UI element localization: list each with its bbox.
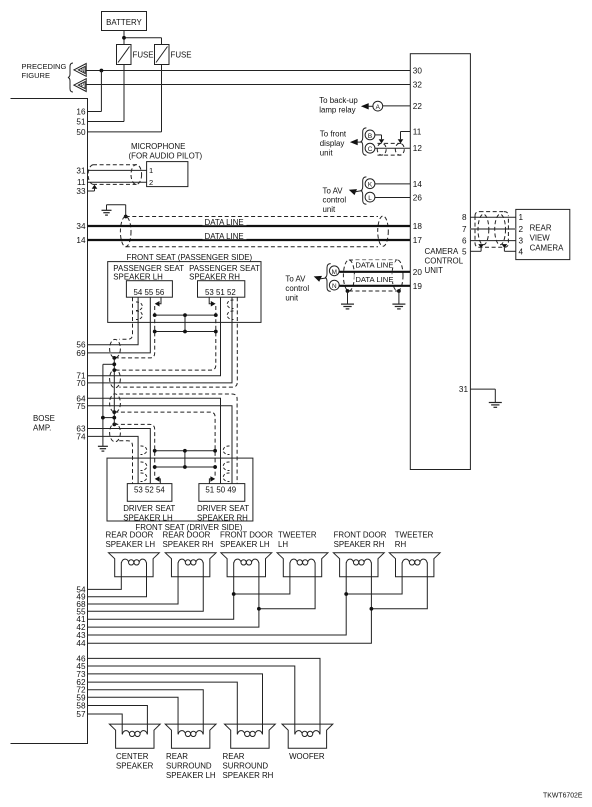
wire driver tie center link	[184, 451, 186, 467]
svg-text:BOSE: BOSE	[33, 414, 55, 423]
shield drain triangle camera pin 4	[502, 244, 508, 248]
ground AV shield right	[392, 291, 405, 309]
svg-text:34: 34	[76, 222, 86, 231]
svg-text:DATA LINE: DATA LINE	[355, 275, 393, 284]
data line 1 (pin 34 to camera control pin 18)	[88, 225, 411, 227]
svg-text:REAR DOOR: REAR DOOR	[163, 530, 211, 539]
svg-text:REAR DOOR: REAR DOOR	[106, 530, 154, 539]
speaker rear door speaker RH	[165, 553, 216, 577]
to back-up lamp relay label	[319, 96, 358, 114]
label FRONT DOOR SPEAKER RH	[334, 530, 387, 548]
data line 2 (pin 14 to camera control pin 17)	[88, 239, 411, 241]
svg-text:19: 19	[413, 282, 423, 291]
wire amp pin 73 to rear surround RH -	[88, 674, 263, 734]
svg-text:14: 14	[76, 236, 86, 245]
wire rear camera pin 4 to shield	[504, 248, 515, 251]
svg-text:8: 8	[462, 213, 467, 222]
data line 1 label	[203, 217, 247, 227]
camera control unit left pin labels	[413, 67, 423, 291]
wire passenger LH pin 55 to amp pin 69	[88, 297, 151, 353]
wire pin 51	[88, 121, 125, 123]
svg-text:AMP.: AMP.	[33, 424, 51, 433]
wire passenger RH pin 52 to amp pin 70	[88, 297, 233, 383]
svg-text:75: 75	[76, 402, 86, 411]
svg-text:16: 16	[76, 108, 86, 117]
label TWEETER RH	[395, 530, 434, 548]
svg-text:display: display	[320, 139, 345, 148]
junction tweeter LH -	[257, 607, 261, 611]
driver seat speaker LH label	[123, 504, 175, 522]
wire B to shield drain	[375, 135, 382, 139]
junction data line shield ground	[124, 215, 128, 219]
connector circle L	[365, 192, 375, 202]
label TWEETER LH	[278, 530, 317, 548]
passenger seat speaker LH label	[113, 264, 184, 282]
svg-text:FRONT SEAT (PASSENGER SIDE): FRONT SEAT (PASSENGER SIDE)	[127, 253, 253, 262]
svg-text:SPEAKER LH: SPEAKER LH	[123, 513, 173, 522]
wire P to camera control pin 32	[86, 84, 410, 86]
shield mark passenger RH	[227, 300, 233, 320]
bose amp label	[33, 414, 55, 433]
svg-text:33: 33	[76, 187, 86, 196]
label REAR DOOR SPEAKER LH	[106, 530, 156, 548]
ground camera control unit	[489, 402, 502, 404]
svg-text:(FOR AUDIO PILOT): (FOR AUDIO PILOT)	[129, 152, 203, 161]
svg-text:PASSENGER SEAT: PASSENGER SEAT	[189, 264, 260, 273]
brace AV connectors M N	[325, 264, 331, 292]
speaker front door speaker LH	[221, 553, 272, 577]
wire driver speaker tie upper	[155, 450, 215, 452]
wire A to camera control pin 22	[383, 105, 411, 107]
AV data line 1 label	[354, 260, 395, 270]
wire fuse F2 to pin 50	[161, 65, 163, 132]
svg-text:74: 74	[76, 432, 86, 441]
wire passenger LH pin 56 to shield	[158, 297, 162, 304]
wire K to camera control pin 14	[375, 183, 410, 185]
wire driver RH pin 51 to shield	[209, 479, 212, 484]
svg-text:A: A	[376, 104, 381, 111]
svg-text:DATA LINE: DATA LINE	[205, 218, 244, 227]
svg-text:MICROPHONE: MICROPHONE	[131, 142, 185, 151]
passenger seat speaker LH connector	[126, 281, 172, 298]
rear view camera unit	[516, 209, 570, 259]
svg-text:CAMERA: CAMERA	[530, 244, 564, 253]
svg-text:26: 26	[413, 194, 423, 203]
connector triangle N	[74, 64, 86, 77]
svg-text:REAR: REAR	[223, 752, 245, 761]
to AV control unit label (K L)	[323, 186, 347, 214]
shield drain triangle driver LH	[155, 476, 160, 482]
svg-text:12: 12	[413, 144, 423, 153]
svg-text:FRONT DOOR: FRONT DOOR	[334, 530, 387, 539]
svg-text:REAR: REAR	[530, 224, 552, 233]
svg-text:CAMERA: CAMERA	[425, 247, 459, 256]
wire tweeter RH - join	[371, 563, 427, 609]
wire amp pin 62 to rear surround RH +	[88, 682, 238, 734]
front seat driver side boundary	[107, 458, 253, 521]
arrow to back-up lamp relay	[361, 103, 373, 109]
junctions passenger ties	[153, 313, 218, 333]
wire amp pin 72 to rear surround LH -	[88, 690, 204, 734]
ground AV shield left	[341, 291, 354, 309]
junctions driver ties	[153, 449, 217, 469]
shield mark passenger LH	[136, 302, 142, 320]
wire camera pin 8 to camera pin 1	[470, 216, 515, 218]
bose amp unit boundary	[11, 99, 88, 744]
svg-text:B: B	[368, 133, 372, 140]
wire amp pin 57 to center speaker +	[88, 714, 123, 734]
svg-text:control: control	[285, 284, 309, 293]
wire amp pin 63 to driver LH pin 52	[88, 429, 151, 484]
svg-text:DRIVER SEAT: DRIVER SEAT	[123, 504, 175, 513]
svg-text:30: 30	[413, 67, 423, 76]
wire pin 31 to ground	[470, 389, 495, 402]
svg-text:To front: To front	[320, 130, 347, 139]
wire camera pin 6 to camera pin 3	[470, 240, 515, 242]
wire pin 31 to microphone pin 1	[88, 169, 147, 171]
preceding figure label	[22, 62, 67, 80]
wire drain to ground lower link	[103, 417, 114, 419]
wire M to camera control pin 20 (data line)	[339, 271, 410, 273]
wire driver LH pin 54 to shield	[158, 479, 161, 484]
fuse F2	[155, 45, 192, 65]
wire drain to ground upper link	[103, 363, 114, 365]
svg-text:11: 11	[413, 128, 422, 137]
svg-text:7: 7	[462, 225, 467, 234]
svg-text:3: 3	[519, 237, 524, 246]
svg-text:20: 20	[413, 268, 423, 277]
svg-text:control: control	[323, 196, 347, 205]
wire drain ground vertical	[102, 364, 104, 446]
arrow to AV control unit (M N)	[314, 276, 327, 282]
to AV control unit label (M N)	[285, 275, 309, 303]
svg-text:unit: unit	[320, 149, 334, 158]
to front display unit label	[320, 130, 347, 158]
wire driver speaker tie lower	[155, 466, 215, 468]
svg-text:44: 44	[76, 639, 86, 648]
svg-text:N: N	[81, 68, 85, 74]
shield passenger RH cable	[110, 297, 238, 388]
wire N to camera control pin 30	[86, 70, 410, 72]
svg-text:31: 31	[76, 166, 86, 175]
camera control unit	[410, 54, 470, 470]
rear surround speaker LH label	[166, 752, 216, 780]
svg-text:2: 2	[149, 178, 153, 187]
svg-text:SPEAKER RH: SPEAKER RH	[223, 771, 274, 780]
shield passenger LH cable	[110, 297, 155, 358]
wire amp pin 58 to center speaker -	[88, 706, 148, 735]
wire amp pin 64 to driver RH pin 50	[88, 398, 221, 483]
svg-text:51: 51	[76, 118, 86, 127]
brace AV connectors K L	[361, 177, 367, 204]
wire passenger RH pin 53 to shield	[209, 297, 212, 304]
junction battery feed	[122, 36, 126, 40]
svg-text:PASSENGER SEAT: PASSENGER SEAT	[113, 264, 184, 273]
wire amp pin 46 to woofer -	[88, 658, 321, 734]
speaker rear surround speaker RH	[225, 724, 276, 748]
svg-text:31: 31	[459, 385, 469, 394]
svg-text:SPEAKER LH: SPEAKER LH	[220, 540, 270, 549]
junction wire 16	[100, 69, 104, 73]
svg-text:CONTROL: CONTROL	[425, 257, 464, 266]
connector circle B	[365, 130, 375, 140]
wire pin 11 to microphone pin 2	[88, 181, 147, 183]
driver seat speaker RH label	[197, 504, 249, 522]
svg-text:unit: unit	[285, 294, 299, 303]
fuse F1	[117, 45, 154, 65]
svg-text:WOOFER: WOOFER	[289, 752, 325, 761]
svg-text:FRONT DOOR: FRONT DOOR	[220, 530, 273, 539]
svg-text:BATTERY: BATTERY	[106, 18, 142, 27]
svg-text:lamp relay: lamp relay	[319, 106, 355, 115]
svg-text:69: 69	[76, 349, 86, 358]
passenger seat speaker RH label	[189, 264, 260, 282]
wire front door LH - to amp pin 42	[88, 563, 259, 628]
wire front door LH + to amp pin 41	[88, 563, 234, 620]
svg-text:SPEAKER RH: SPEAKER RH	[163, 540, 214, 549]
svg-text:To AV: To AV	[323, 186, 344, 195]
junction AV shield ground left	[346, 289, 350, 293]
connector circle C	[365, 143, 375, 153]
svg-text:2: 2	[519, 225, 524, 234]
driver seat speaker LH connector	[127, 484, 172, 502]
label REAR DOOR SPEAKER RH	[163, 530, 214, 548]
junction tweeter RH -	[370, 607, 374, 611]
svg-text:K: K	[368, 182, 373, 189]
speaker tweeter LH	[277, 553, 328, 577]
ground microphone shield	[102, 205, 126, 217]
junction tweeter RH +	[344, 592, 348, 596]
svg-text:SURROUND: SURROUND	[223, 762, 269, 771]
svg-text:REAR: REAR	[166, 752, 188, 761]
brace preceding figure	[68, 63, 73, 92]
speaker tweeter RH	[389, 553, 440, 577]
shield front display pair	[377, 143, 404, 155]
svg-text:5: 5	[462, 247, 467, 256]
svg-text:CENTER: CENTER	[116, 752, 149, 761]
wire amp pin 74 to driver LH pin 53	[88, 436, 139, 483]
data line 2 label	[203, 231, 247, 241]
svg-text:4: 4	[519, 247, 524, 256]
shield AV data line pair	[343, 260, 403, 291]
wire tweeter LH - join	[259, 563, 315, 609]
shield rear camera cable	[475, 212, 508, 248]
svg-text:FUSE: FUSE	[171, 51, 192, 60]
wire amp pin 59 to rear surround LH +	[88, 697, 179, 734]
passenger seat speaker RH connector	[198, 281, 245, 298]
wire passenger speaker tie upper	[155, 314, 216, 316]
svg-text:TKWT6702E: TKWT6702E	[543, 793, 583, 800]
svg-text:51 50 49: 51 50 49	[205, 485, 236, 494]
svg-text:SPEAKER RH: SPEAKER RH	[334, 540, 385, 549]
wire pin 50	[88, 131, 162, 133]
svg-text:FIGURE: FIGURE	[22, 71, 51, 80]
svg-text:SPEAKER RH: SPEAKER RH	[197, 513, 248, 522]
wire shield drain bus	[113, 358, 115, 425]
wire passenger RH pin 51 to amp pin 71	[88, 297, 221, 376]
rear surround speaker RH label	[223, 752, 274, 780]
svg-text:C: C	[368, 146, 373, 153]
driver seat speaker RH connector	[199, 484, 245, 502]
svg-text:1: 1	[519, 213, 524, 222]
wire tweeter RH + join	[346, 563, 402, 595]
connector circle N	[329, 280, 339, 290]
wire front door RH - to amp pin 44	[88, 563, 372, 644]
svg-text:L: L	[368, 195, 372, 202]
svg-text:11: 11	[77, 178, 86, 187]
camera control unit right pin labels	[462, 213, 467, 256]
shield driver RH cable	[110, 394, 238, 484]
wire rear door LH - to amp pin 49	[88, 563, 147, 597]
shield drain triangle pin 11	[398, 139, 404, 143]
shield drain triangle driver RH	[210, 476, 215, 482]
speaker rear door speaker LH	[109, 553, 160, 577]
connector triangle P	[74, 79, 86, 92]
microphone unit	[147, 162, 188, 187]
svg-text:17: 17	[413, 236, 423, 245]
center speaker label	[116, 752, 154, 770]
svg-text:VIEW: VIEW	[530, 234, 551, 243]
wire passenger speaker tie lower	[155, 331, 216, 333]
svg-text:M: M	[332, 269, 337, 276]
AV data line 2 label	[354, 274, 395, 284]
bose amp pin number labels	[76, 108, 86, 720]
junctions shield drains	[101, 356, 116, 426]
svg-text:54 55 56: 54 55 56	[134, 288, 165, 297]
speaker woofer	[282, 724, 333, 748]
speaker front door speaker RH	[333, 553, 384, 577]
wire rear door RH + to amp pin 68	[88, 563, 179, 605]
wire C to camera control pin 12	[375, 147, 410, 149]
svg-text:RH: RH	[395, 540, 407, 549]
shield microphone cable	[88, 165, 142, 185]
shield driver LH cable	[110, 423, 155, 483]
wire fuse F1 to pin 51	[123, 65, 125, 122]
svg-text:TWEETER: TWEETER	[395, 530, 434, 539]
ground shield drain	[98, 445, 108, 447]
svg-text:22: 22	[413, 102, 423, 111]
brace front display connectors	[361, 128, 367, 155]
wire battery to fuses	[124, 31, 162, 45]
svg-text:To back-up: To back-up	[319, 96, 358, 105]
svg-text:14: 14	[413, 180, 423, 189]
shield drain triangle camera pin 5	[478, 244, 484, 248]
svg-text:LH: LH	[278, 540, 288, 549]
svg-text:6: 6	[462, 237, 467, 246]
battery B1	[102, 12, 147, 31]
svg-text:57: 57	[76, 710, 86, 719]
svg-text:SPEAKER LH: SPEAKER LH	[166, 771, 216, 780]
svg-text:FUSE: FUSE	[133, 51, 154, 60]
svg-text:1: 1	[149, 166, 153, 175]
wire rear door LH + to amp pin 54	[88, 563, 122, 590]
svg-text:UNIT: UNIT	[425, 266, 444, 275]
wire N to camera control pin 19 (data line)	[339, 285, 410, 287]
svg-text:50: 50	[76, 128, 86, 137]
wire amp pin 75 to driver RH pin 49	[88, 406, 233, 484]
svg-text:DRIVER SEAT: DRIVER SEAT	[197, 504, 249, 513]
connector circle A	[373, 101, 383, 111]
connector circle K	[365, 179, 375, 189]
front seat passenger side boundary	[108, 262, 261, 323]
wire pin 33	[88, 188, 95, 191]
shield mark driver LH	[141, 446, 147, 482]
connector circle M	[329, 266, 339, 276]
svg-text:53 51 52: 53 51 52	[205, 288, 236, 297]
junction AV shield ground right	[397, 289, 401, 293]
svg-text:SURROUND: SURROUND	[166, 762, 212, 771]
svg-text:SPEAKER: SPEAKER	[116, 762, 154, 771]
svg-text:DATA LINE: DATA LINE	[355, 261, 393, 270]
wire passenger tie center link	[184, 315, 186, 331]
shield mark driver RH	[223, 446, 229, 482]
speaker center speaker	[109, 724, 160, 748]
wire rear door RH - to amp pin 55	[88, 563, 204, 612]
wire camera pin 11 to shield drain	[401, 132, 411, 140]
wire camera control pin 5 to shield	[470, 248, 481, 251]
svg-text:TWEETER: TWEETER	[278, 530, 317, 539]
wire amp pin 45 to woofer +	[88, 666, 295, 734]
svg-text:70: 70	[76, 379, 86, 388]
svg-text:N: N	[332, 283, 337, 290]
wire camera pin 7 to camera pin 2 (video)	[470, 228, 515, 230]
svg-text:53 52 54: 53 52 54	[134, 485, 165, 494]
svg-text:32: 32	[413, 81, 423, 90]
svg-text:unit: unit	[323, 205, 337, 214]
shield drain triangle B	[379, 139, 385, 143]
wire passenger LH pin 54 to amp pin 56	[88, 297, 139, 345]
wire pin 16	[88, 71, 102, 112]
arrow to AV control unit (K L)	[349, 189, 363, 195]
microphone label	[129, 142, 203, 160]
svg-text:To AV: To AV	[285, 275, 306, 284]
wire front door RH + to amp pin 43	[88, 563, 347, 636]
label FRONT DOOR SPEAKER LH	[220, 530, 273, 548]
junction tweeter LH +	[232, 592, 236, 596]
svg-text:SPEAKER LH: SPEAKER LH	[106, 540, 156, 549]
shield drain triangle passenger LH	[155, 301, 160, 307]
wire tweeter LH + join	[234, 563, 290, 595]
svg-text:DATA LINE: DATA LINE	[205, 232, 244, 241]
shield data line pair	[120, 216, 388, 247]
speaker rear surround speaker LH	[165, 724, 216, 748]
rear view camera pin labels	[519, 213, 524, 256]
wire L to camera control pin 26	[375, 197, 410, 199]
shield drain triangle pin 33	[92, 185, 98, 189]
arrow to front display unit	[350, 139, 362, 145]
svg-text:18: 18	[413, 222, 423, 231]
shield drain triangle passenger RH	[211, 301, 216, 307]
svg-text:PRECEDING: PRECEDING	[22, 62, 67, 71]
